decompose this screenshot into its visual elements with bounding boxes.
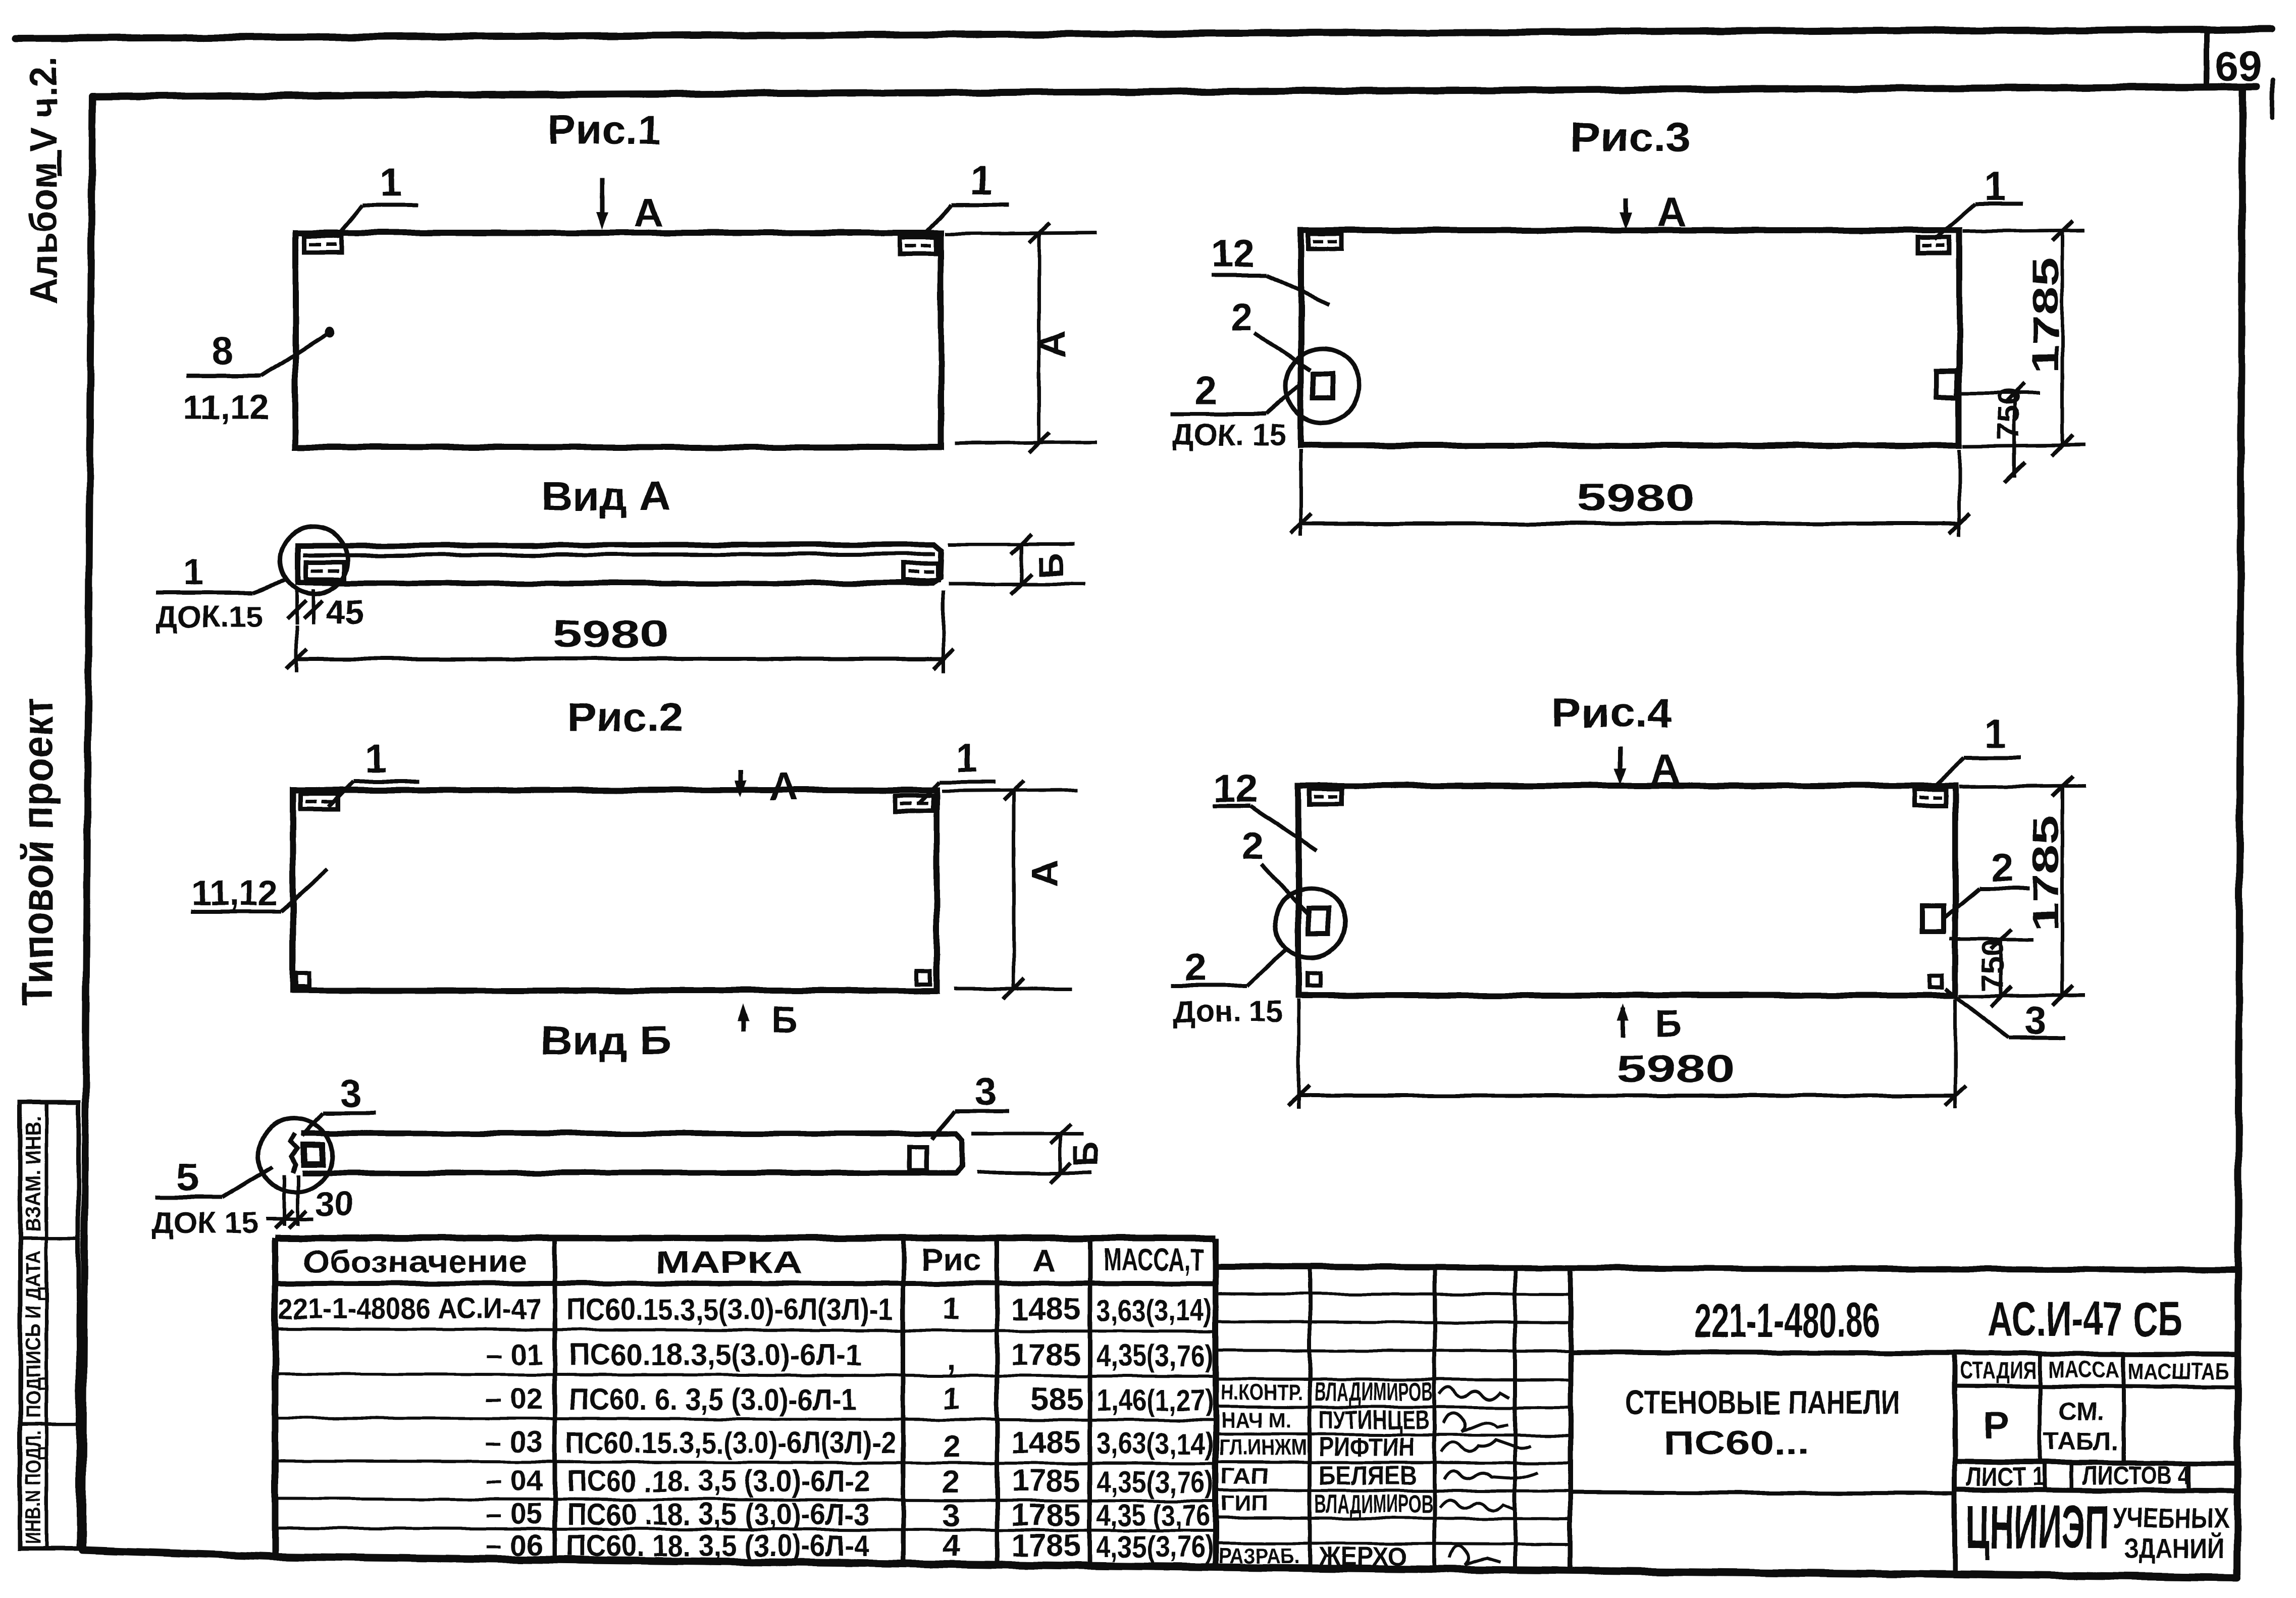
svg-text:ДОК. 15: ДОК. 15 xyxy=(1172,418,1286,452)
svg-text:ТАБЛ.: ТАБЛ. xyxy=(2044,1427,2118,1456)
svg-text:НАЧ М.: НАЧ М. xyxy=(1221,1408,1291,1433)
svg-text:ГАП: ГАП xyxy=(1221,1464,1269,1488)
svg-text:4,35(3,76): 4,35(3,76) xyxy=(1097,1465,1214,1499)
svg-text:МАССА,Т: МАССА,Т xyxy=(1103,1243,1204,1277)
svg-text:30: 30 xyxy=(316,1185,354,1223)
svg-text:ДОК 15: ДОК 15 xyxy=(152,1206,258,1240)
svg-text:2: 2 xyxy=(1991,845,2013,890)
svg-text:ИНВ.N ПОДЛ.: ИНВ.N ПОДЛ. xyxy=(21,1430,45,1544)
svg-text:,: , xyxy=(947,1342,955,1376)
svg-text:ЖЕРХО: ЖЕРХО xyxy=(1318,1542,1407,1571)
svg-text:69: 69 xyxy=(2215,42,2262,90)
svg-text:2: 2 xyxy=(1184,945,1206,989)
svg-text:8: 8 xyxy=(211,329,233,373)
svg-text:3: 3 xyxy=(974,1069,996,1113)
svg-text:1: 1 xyxy=(183,552,203,593)
svg-text:1785: 1785 xyxy=(1011,1337,1081,1372)
svg-text:Вид Б: Вид Б xyxy=(540,1018,671,1063)
svg-text:– 03: – 03 xyxy=(486,1426,543,1459)
svg-text:3: 3 xyxy=(2024,998,2046,1043)
svg-text:ПС60.15.3,5.(3.0)-6Л(3Л)-2: ПС60.15.3,5.(3.0)-6Л(3Л)-2 xyxy=(565,1426,896,1460)
svg-text:4,35(3,76): 4,35(3,76) xyxy=(1097,1530,1214,1564)
svg-text:4,35 (3,76: 4,35 (3,76 xyxy=(1097,1499,1210,1532)
svg-text:12: 12 xyxy=(1214,766,1258,810)
svg-text:5980: 5980 xyxy=(1577,477,1695,520)
svg-text:221-1-48086 АС.И-47: 221-1-48086 АС.И-47 xyxy=(279,1293,541,1325)
svg-text:1785: 1785 xyxy=(1011,1528,1081,1563)
svg-text:ПУТИНЦЕВ: ПУТИНЦЕВ xyxy=(1319,1406,1430,1435)
svg-text:11,12: 11,12 xyxy=(191,873,278,912)
svg-text:Б: Б xyxy=(1655,1002,1682,1044)
svg-text:Вид А: Вид А xyxy=(542,474,670,519)
svg-text:Рис: Рис xyxy=(921,1243,981,1277)
svg-text:ПОДПИСЬ И ДАТА: ПОДПИСЬ И ДАТА xyxy=(21,1251,45,1418)
svg-text:A: A xyxy=(1657,190,1686,235)
svg-text:4: 4 xyxy=(943,1528,960,1563)
svg-text:1: 1 xyxy=(365,737,387,781)
svg-text:ПС60. 18. 3,5 (3.0)-6Л-4: ПС60. 18. 3,5 (3.0)-6Л-4 xyxy=(566,1529,870,1563)
svg-text:1: 1 xyxy=(380,160,402,204)
svg-text:Обозначение: Обозначение xyxy=(303,1245,528,1279)
svg-text:Б: Б xyxy=(1031,553,1070,578)
svg-text:– 06: – 06 xyxy=(486,1529,543,1562)
svg-text:МАСШТАБ: МАСШТАБ xyxy=(2128,1358,2229,1384)
svg-text:Дон. 15: Дон. 15 xyxy=(1174,995,1283,1028)
svg-text:ПС60. 6. 3,5 (3.0)-6Л-1: ПС60. 6. 3,5 (3.0)-6Л-1 xyxy=(569,1382,857,1416)
svg-text:ПС60...: ПС60... xyxy=(1663,1424,1810,1461)
svg-text:СТАДИЯ: СТАДИЯ xyxy=(1960,1357,2037,1383)
svg-text:ПС60.18.3,5(3.0)-6Л-1: ПС60.18.3,5(3.0)-6Л-1 xyxy=(569,1338,862,1372)
svg-text:1485: 1485 xyxy=(1011,1425,1081,1460)
svg-text:1: 1 xyxy=(943,1381,960,1416)
svg-text:– 02: – 02 xyxy=(486,1382,543,1415)
svg-text:4,35(3,76): 4,35(3,76) xyxy=(1097,1339,1214,1373)
svg-text:12: 12 xyxy=(1212,231,1256,275)
svg-text:ГЛ.ИНЖМ: ГЛ.ИНЖМ xyxy=(1219,1435,1307,1460)
svg-text:A: A xyxy=(1031,331,1074,358)
svg-text:1,46(1,27): 1,46(1,27) xyxy=(1097,1383,1214,1417)
svg-text:3: 3 xyxy=(943,1498,960,1533)
svg-text:1785: 1785 xyxy=(1011,1464,1081,1499)
svg-text:ВЗАМ. ИНВ.: ВЗАМ. ИНВ. xyxy=(21,1116,45,1232)
svg-text:1785: 1785 xyxy=(1011,1498,1081,1533)
svg-text:Б: Б xyxy=(1066,1142,1106,1167)
svg-text:Р: Р xyxy=(1984,1405,2009,1448)
svg-text:СТЕНОВЫЕ ПАНЕЛИ: СТЕНОВЫЕ ПАНЕЛИ xyxy=(1626,1383,1901,1421)
svg-text:ПС60 .18. 3,5 (3.0)-6Л-2: ПС60 .18. 3,5 (3.0)-6Л-2 xyxy=(566,1464,869,1498)
svg-text:1: 1 xyxy=(1984,711,2006,756)
svg-text:Рис.1: Рис.1 xyxy=(548,107,661,153)
svg-text:585: 585 xyxy=(1031,1382,1083,1417)
svg-text:3,63(3,14): 3,63(3,14) xyxy=(1097,1427,1214,1461)
svg-text:МАССА: МАССА xyxy=(2049,1356,2119,1382)
svg-text:2: 2 xyxy=(943,1465,960,1500)
svg-text:5980: 5980 xyxy=(553,613,669,656)
svg-text:РАЗРАБ.: РАЗРАБ. xyxy=(1219,1543,1299,1568)
svg-text:11,12: 11,12 xyxy=(183,387,269,427)
svg-text:– 05: – 05 xyxy=(486,1498,543,1530)
svg-text:750: 750 xyxy=(1976,939,2011,991)
svg-text:221-1-480.86: 221-1-480.86 xyxy=(1694,1294,1880,1348)
svg-text:Н.КОНТР.: Н.КОНТР. xyxy=(1221,1380,1302,1405)
svg-text:Рис.4: Рис.4 xyxy=(1551,690,1673,736)
svg-text:3,63(3,14): 3,63(3,14) xyxy=(1097,1294,1212,1327)
svg-text:1: 1 xyxy=(1984,164,2006,209)
svg-text:A: A xyxy=(1023,860,1066,888)
svg-text:3: 3 xyxy=(340,1071,361,1115)
svg-text:A: A xyxy=(634,190,663,235)
svg-text:ВЛАДИМИРОВ: ВЛАДИМИРОВ xyxy=(1315,1377,1433,1407)
svg-text:ЗДАНИЙ: ЗДАНИЙ xyxy=(2123,1532,2224,1564)
svg-text:Типовой проект: Типовой проект xyxy=(14,698,62,1006)
svg-text:5: 5 xyxy=(177,1155,198,1199)
svg-text:МАРКА: МАРКА xyxy=(656,1246,802,1280)
svg-text:A: A xyxy=(769,764,799,809)
svg-text:A: A xyxy=(1651,746,1680,791)
svg-text:1785: 1785 xyxy=(2026,815,2066,932)
svg-text:2: 2 xyxy=(1194,368,1216,413)
svg-text:А: А xyxy=(1033,1244,1056,1278)
svg-text:2: 2 xyxy=(943,1429,960,1464)
svg-text:ВЛАДИМИРОВ: ВЛАДИМИРОВ xyxy=(1315,1489,1433,1519)
svg-text:АС.И-47 СБ: АС.И-47 СБ xyxy=(1987,1293,2183,1346)
svg-text:ЛИСТОВ 4: ЛИСТОВ 4 xyxy=(2083,1461,2190,1490)
svg-text:1: 1 xyxy=(943,1291,960,1326)
svg-text:– 04: – 04 xyxy=(486,1464,543,1497)
svg-text:45: 45 xyxy=(326,593,364,631)
svg-text:Рис.2: Рис.2 xyxy=(567,694,683,740)
svg-text:1: 1 xyxy=(956,736,977,780)
svg-text:Альбом V ч.2.: Альбом V ч.2. xyxy=(23,57,65,304)
svg-text:СМ.: СМ. xyxy=(2058,1397,2104,1425)
svg-text:750: 750 xyxy=(1991,388,2026,440)
svg-text:1485: 1485 xyxy=(1011,1292,1081,1327)
svg-text:1: 1 xyxy=(970,158,992,202)
svg-text:РИФТИН: РИФТИН xyxy=(1319,1433,1415,1462)
svg-text:БЕЛЯЕВ: БЕЛЯЕВ xyxy=(1319,1461,1417,1490)
svg-text:5980: 5980 xyxy=(1617,1048,1736,1091)
svg-text:Б: Б xyxy=(771,999,798,1041)
svg-text:2: 2 xyxy=(1231,295,1253,339)
svg-text:ЦНИИЭП: ЦНИИЭП xyxy=(1966,1492,2110,1561)
svg-text:ПС60 .18. 3,5 (3,0)-6Л-3: ПС60 .18. 3,5 (3,0)-6Л-3 xyxy=(566,1498,869,1531)
svg-text:1785: 1785 xyxy=(2026,257,2066,374)
svg-text:– 01: – 01 xyxy=(486,1338,543,1371)
svg-text:ДОК.15: ДОК.15 xyxy=(156,600,262,634)
svg-text:ЛИСТ 1: ЛИСТ 1 xyxy=(1966,1462,2045,1491)
svg-text:ПС60.15.3,5(3.0)-6Л(3Л)-1: ПС60.15.3,5(3.0)-6Л(3Л)-1 xyxy=(566,1293,894,1326)
svg-text:УЧЕБНЫХ: УЧЕБНЫХ xyxy=(2113,1502,2229,1534)
svg-text:Рис.3: Рис.3 xyxy=(1570,115,1691,161)
svg-text:2: 2 xyxy=(1242,823,1264,868)
svg-text:ГИП: ГИП xyxy=(1221,1491,1269,1516)
